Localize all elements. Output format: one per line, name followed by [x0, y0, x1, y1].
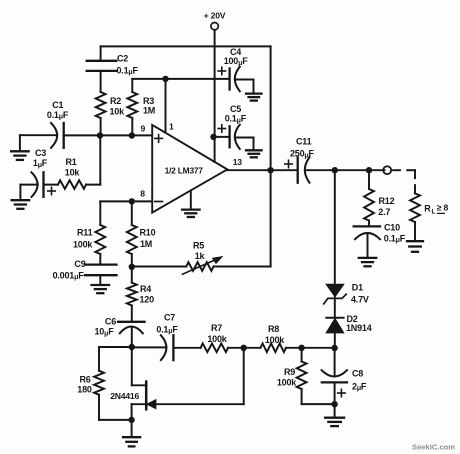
- svg-text:R9: R9: [284, 367, 295, 377]
- svg-text:C10: C10: [384, 223, 400, 233]
- svg-text:1N914: 1N914: [346, 323, 372, 333]
- svg-text:C6: C6: [105, 317, 116, 327]
- svg-text:10μF: 10μF: [94, 327, 114, 338]
- svg-text:0.1μF: 0.1μF: [47, 110, 69, 121]
- svg-text:1M: 1M: [143, 106, 155, 116]
- svg-text:D1: D1: [352, 283, 363, 293]
- svg-text:9: 9: [141, 123, 146, 133]
- svg-text:0.1μF: 0.1μF: [117, 65, 139, 76]
- svg-text:100k: 100k: [277, 377, 297, 387]
- svg-text:1μF: 1μF: [33, 158, 48, 169]
- svg-text:L: L: [432, 208, 436, 215]
- svg-text:C3: C3: [35, 148, 46, 158]
- svg-text:100μF: 100μF: [224, 56, 249, 67]
- svg-text:C7: C7: [164, 312, 175, 322]
- svg-text:+ 20V: + 20V: [204, 11, 226, 21]
- svg-text:2μF: 2μF: [352, 381, 367, 392]
- svg-text:R3: R3: [143, 96, 154, 106]
- svg-text:R4: R4: [140, 284, 151, 294]
- svg-text:13: 13: [233, 157, 243, 167]
- svg-text:250μF: 250μF: [290, 149, 315, 160]
- svg-text:C5: C5: [230, 104, 241, 114]
- svg-text:100k: 100k: [207, 334, 227, 344]
- svg-text:0.1μF: 0.1μF: [156, 324, 178, 335]
- svg-text:0.1μF: 0.1μF: [225, 114, 247, 125]
- svg-text:0.001μF: 0.001μF: [53, 270, 85, 281]
- svg-text:R5: R5: [193, 240, 204, 250]
- svg-text:2.7: 2.7: [378, 207, 390, 217]
- svg-text:10k: 10k: [110, 106, 126, 116]
- svg-text:C1: C1: [52, 100, 63, 110]
- svg-text:1/2 LM377: 1/2 LM377: [165, 166, 204, 176]
- svg-text:R6: R6: [79, 374, 90, 384]
- svg-text:2N4416: 2N4416: [110, 391, 139, 401]
- svg-text:100k: 100k: [73, 239, 93, 249]
- svg-text:0.1μF: 0.1μF: [384, 233, 406, 244]
- svg-text:1M: 1M: [140, 239, 152, 249]
- svg-text:R8: R8: [268, 324, 279, 334]
- svg-text:R1: R1: [65, 157, 76, 167]
- svg-text:C9: C9: [74, 259, 85, 269]
- svg-text:100k: 100k: [265, 335, 285, 345]
- svg-text:120: 120: [140, 294, 155, 304]
- svg-text:8: 8: [140, 189, 145, 199]
- svg-text:4.7V: 4.7V: [351, 295, 369, 305]
- svg-text:10k: 10k: [65, 168, 81, 178]
- svg-text:C11: C11: [296, 137, 312, 147]
- svg-text:R7: R7: [211, 323, 222, 333]
- svg-text:R2: R2: [110, 96, 121, 106]
- svg-text:R10: R10: [140, 228, 156, 238]
- svg-text:R12: R12: [379, 196, 395, 206]
- svg-text:≥ 8: ≥ 8: [437, 203, 449, 213]
- svg-text:C8: C8: [352, 368, 363, 378]
- svg-text:R: R: [424, 203, 431, 213]
- svg-text:R11: R11: [77, 228, 93, 238]
- svg-text:SeekIC.com: SeekIC.com: [412, 442, 455, 451]
- svg-text:C2: C2: [117, 54, 128, 64]
- svg-text:1: 1: [169, 122, 174, 132]
- svg-text:1k: 1k: [195, 251, 206, 261]
- svg-text:180: 180: [77, 385, 92, 395]
